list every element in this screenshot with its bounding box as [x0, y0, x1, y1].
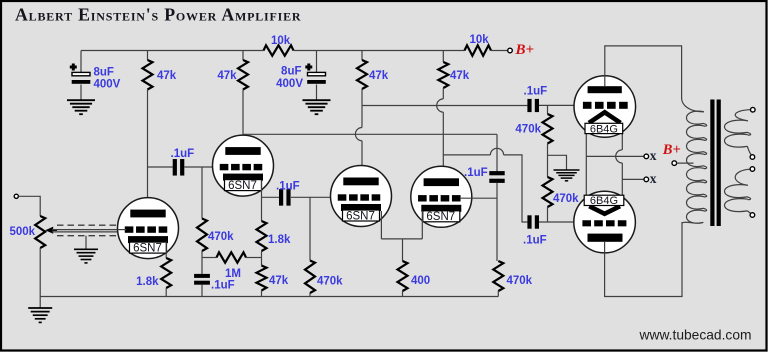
tube V2 6SN7 grid [220, 164, 263, 170]
svg-text:B+: B+ [662, 142, 681, 158]
label .1uF #1 [171, 148, 195, 160]
wire: rail to R 47k #2 [242, 51, 244, 61]
capacitor C .1uF #1 [173, 159, 185, 176]
label 47k #3 [369, 70, 389, 82]
wire: R 47k #4 down [442, 88, 444, 99]
svg-text:470k: 470k [208, 231, 234, 243]
wire: cathode node to R 400 [402, 239, 404, 261]
tube V1 6SN7 grid [125, 226, 168, 232]
B+ terminal top [508, 48, 513, 53]
wire: hop to V4 plate [442, 112, 444, 179]
resistor R 47k V2 cathode [257, 266, 267, 291]
wire: 1M left lead [202, 257, 217, 259]
svg-text:www.tubecad.com: www.tubecad.com [639, 328, 752, 343]
wire hop: V4 plate wire over top grid line [437, 99, 444, 112]
label x top [650, 148, 657, 163]
label 8uF #1 [94, 67, 114, 79]
wire: top filament left lead [585, 123, 587, 206]
tube V1 6SN7 cathode [128, 236, 168, 243]
capacitor C .1uF vertical [489, 171, 504, 183]
wire: C .1uF #3 to V3 grid [291, 196, 331, 198]
svg-text:.1uF: .1uF [211, 280, 235, 292]
wire: C .1uF top to top 6B4G grid [539, 104, 575, 106]
wire: B+ rail left segment [81, 50, 264, 52]
tube V2 6SN7 plate [225, 147, 260, 155]
tube 6B4G bottom label box [584, 195, 624, 207]
svg-text:470k: 470k [507, 275, 533, 287]
label 8uF #2 [281, 66, 301, 78]
svg-text:.1uF: .1uF [524, 86, 548, 98]
svg-text:470k: 470k [317, 276, 343, 288]
tube V2 6SN7 label box [225, 180, 262, 192]
tube 6B4G bottom envelope [574, 191, 636, 253]
label 1.8k V2 [268, 234, 291, 246]
transformer T1 core [710, 100, 721, 227]
wire: B+ tap to primary [677, 162, 694, 164]
wire: V2 cathode to C .1uF #3 [262, 196, 280, 198]
wire: joined cathodes [381, 238, 422, 240]
wire: rail drop to C 8uF #1 [80, 51, 82, 73]
svg-text:8uF: 8uF [94, 67, 114, 79]
svg-text:x: x [650, 171, 657, 186]
wire: V2 grid node down to R 470k #1 [201, 167, 203, 219]
svg-text:470k: 470k [553, 193, 579, 205]
label 47k #1 [157, 70, 177, 82]
svg-text:.1uF: .1uF [276, 181, 300, 193]
secondary terminal 1 [751, 107, 756, 112]
wire: R 47k V2 to bus [261, 291, 263, 297]
svg-text:10k: 10k [271, 35, 291, 47]
svg-text:470k: 470k [515, 124, 541, 136]
wire: mid node to ground jog [548, 155, 567, 169]
wire: bus to main ground [39, 297, 41, 309]
label 470k V4 grid [507, 275, 533, 287]
svg-text:47k: 47k [369, 70, 389, 82]
potentiometer wiper arrow [45, 227, 57, 234]
resistor R 10k right [465, 45, 492, 55]
label 47k #4 [450, 70, 470, 82]
label 47k V2 cathode [269, 275, 289, 287]
tube 6B4G bottom plate [588, 234, 623, 242]
tube V4 6SN7 envelope [411, 166, 472, 227]
wire: V3 grid node to R 470k [309, 197, 311, 260]
wire: V4 grid lead [460, 197, 497, 199]
wire: shield to ground [85, 236, 87, 249]
resistor R 470k top grid leak [543, 114, 553, 144]
title [15, 5, 301, 25]
wire: input to pot top [18, 196, 40, 216]
wire: R 1.8k V1 to bus [165, 288, 167, 297]
capacitor C .1uF top coupling [527, 99, 539, 112]
transformer T1 primary winding [682, 99, 707, 224]
tube 6B4G bottom grid [582, 220, 626, 226]
wire hop: V3 plate wire over V2 plate line [355, 128, 362, 141]
wire: B+ rail middle segment [294, 50, 465, 52]
wire: filament right to x terminal [622, 178, 644, 180]
tube V3 6SN7 plate [343, 178, 378, 186]
label 10k left [271, 35, 291, 47]
label 500k [10, 226, 36, 238]
tube V1 6SN7 envelope [118, 198, 179, 259]
capacitor C .1uF #3 [279, 189, 291, 206]
svg-text:10k: 10k [470, 34, 490, 46]
svg-text:6SN7: 6SN7 [228, 180, 257, 192]
ground under C 8uF #2 [303, 100, 331, 114]
svg-text:400V: 400V [94, 79, 121, 91]
svg-text:Albert Einstein's Power Amplif: Albert Einstein's Power Amplifier [15, 5, 301, 25]
label .1uF bottom [523, 235, 547, 247]
wire: V1 plate node to C .1uF #1 [148, 166, 173, 168]
tube 6B4G top label box [585, 123, 623, 135]
svg-text:400: 400 [411, 275, 430, 287]
capacitor C 8uF #1 [70, 64, 90, 84]
svg-text:47k: 47k [157, 70, 177, 82]
wire: shielded pair conductor top [52, 229, 118, 231]
label 10k right [470, 34, 490, 46]
resistor R 47k #2 [238, 60, 248, 90]
wire: C .1uF #2 to bus [201, 284, 203, 296]
wire hop: filament right lead over x wire [616, 150, 623, 163]
label 470k V2 grid [208, 231, 234, 243]
resistor R 400 [398, 261, 408, 291]
svg-text:400V: 400V [276, 78, 303, 90]
resistor R 10k left [264, 45, 294, 55]
tube 6B4G bottom filament [589, 206, 620, 214]
tube V4 6SN7 plate [424, 178, 459, 186]
svg-text:47k: 47k [269, 275, 289, 287]
tube V1 6SN7 label box [130, 242, 167, 254]
tube V4 6SN7 label box [423, 211, 460, 223]
ground under C 8uF #1 [67, 100, 95, 114]
resistor R 470k V3 grid [305, 261, 315, 294]
label 1.8k V1 [136, 276, 159, 288]
ground for shield [74, 249, 98, 263]
secondary terminal 3 [750, 167, 755, 172]
wire: 1M right lead [246, 257, 262, 259]
svg-text:1M: 1M [225, 268, 241, 280]
resistor R 1M [217, 252, 247, 262]
wire: rail to R 47k #4 [442, 51, 444, 63]
transformer T1 secondary winding 2 [724, 169, 751, 214]
wire: V1 grid lead [118, 229, 127, 231]
tube 6B4G top plate [588, 86, 622, 93]
wire: V4 plate tap to hop [443, 154, 490, 156]
label .1uF #2 [211, 280, 235, 292]
wire: V3 cathode lead [380, 211, 382, 239]
wire: R 470k bottom to bottom grid line [547, 207, 549, 222]
wire: R 47k #3 to node A [361, 89, 363, 128]
wire: R 470k top to mid node [547, 144, 549, 178]
tube V2 6SN7 cathode [223, 174, 263, 181]
tube V2 6SN7 envelope [213, 135, 274, 196]
wire: R 470k V4 to bus [497, 291, 499, 297]
wire: rail drop to C 8uF #2 [316, 51, 318, 73]
label .1uF #3 [276, 181, 300, 193]
resistor R 47k #1 [143, 60, 153, 90]
svg-text:8uF: 8uF [281, 66, 301, 78]
capacitor C 8uF #2 [305, 64, 326, 84]
potentiometer 500k body [35, 216, 45, 248]
svg-text:500k: 500k [10, 226, 36, 238]
resistor R 1.8k V2 cathode [257, 221, 267, 251]
wire: V4 cathode lead [421, 211, 423, 239]
wire: C vertical to V4 grid node [496, 183, 498, 261]
wire: top 6B4G plate lead [605, 46, 682, 99]
resistor R 47k #4 [438, 62, 448, 88]
wire: R 1.8k V2 to R 47k [261, 251, 263, 266]
label x bottom [650, 171, 657, 186]
label 47k #2 [217, 70, 237, 82]
svg-text:47k: 47k [217, 70, 237, 82]
wire: R 400 to bus [402, 291, 404, 297]
label 470k top [515, 124, 541, 136]
tube 6B4G top grid [583, 102, 628, 109]
resistor R 470k bottom grid leak [543, 177, 553, 207]
svg-text:6SN7: 6SN7 [426, 211, 455, 223]
transformer T1 secondary winding 1 [724, 110, 752, 156]
wire: top filament right lead lower [621, 163, 623, 206]
resistor R 47k #3 [357, 60, 367, 89]
label 400 [411, 275, 430, 287]
x terminal top [644, 154, 649, 159]
wire: rail to R 47k #3 [361, 51, 363, 61]
wire: shielded pair conductor bottom [52, 231, 118, 233]
wire: rail to R 47k #1 [147, 51, 149, 61]
wire: bottom 6B4G plate lead [605, 222, 682, 297]
label .1uF vertical [464, 167, 488, 179]
shield dashed top [57, 224, 118, 226]
wire: rail to B+ terminal [491, 50, 508, 52]
watermark www.tubecad.com [639, 328, 752, 343]
wire: R 470k to C .1uF #2 [201, 251, 203, 275]
wire: V3 plate node to C .1uF top [362, 105, 527, 107]
svg-text:47k: 47k [450, 70, 470, 82]
wire hop: V4 plate line over V4 grid feed [490, 148, 503, 155]
x terminal bottom [644, 177, 649, 182]
tube V3 6SN7 grid [338, 194, 381, 200]
B+ terminal center tap [672, 161, 677, 166]
wire: C 8uF #2 to ground [316, 85, 318, 101]
wire: R 47k #2 to V2 plate [242, 90, 244, 149]
input terminal [14, 194, 18, 198]
wire: grid node down to R 470k top [547, 106, 549, 115]
wire: V2 cathode lead [261, 181, 263, 222]
main ground symbol [28, 308, 52, 322]
svg-text:6SN7: 6SN7 [346, 210, 375, 222]
label 470k V3 grid [317, 276, 343, 288]
svg-text:6B4G: 6B4G [590, 123, 618, 135]
tube V4 6SN7 grid [418, 195, 461, 201]
wire: C .1uF #1 to V2 grid [184, 166, 213, 168]
svg-text:B+: B+ [515, 42, 535, 58]
label .1uF top [524, 86, 548, 98]
wire: C 8uF #1 to ground [80, 85, 82, 101]
tube V3 6SN7 envelope [331, 166, 392, 227]
svg-text:.1uF: .1uF [464, 167, 488, 179]
wire: hop to corner [504, 155, 528, 222]
wire: R 470k V3 to bus [309, 293, 311, 297]
wire: V2 plate tap line [243, 133, 497, 135]
secondary terminal 2 [750, 155, 755, 160]
tube V3 6SN7 cathode [341, 204, 381, 211]
svg-text:.1uF: .1uF [523, 235, 547, 247]
tube V1 6SN7 plate [130, 210, 165, 218]
wire: R 47k #1 to V1 plate [147, 90, 149, 211]
wire: node A to V3 plate [361, 141, 363, 179]
svg-text:6B4G: 6B4G [590, 195, 618, 207]
wire: ground bus [40, 296, 498, 298]
resistor R 1.8k V1 cathode [161, 258, 171, 288]
svg-text:1.8k: 1.8k [136, 276, 159, 288]
label B+ top [515, 42, 535, 58]
ground mid grid-leak [554, 170, 580, 181]
secondary terminal 4 [750, 213, 755, 218]
wire: V1 cathode lead [165, 242, 167, 259]
wire: filament left to x terminal [586, 155, 644, 157]
tube 6B4G top envelope [574, 76, 636, 138]
svg-text:6SN7: 6SN7 [133, 243, 162, 255]
svg-text:x: x [650, 148, 657, 163]
tube 6B4G top filament [589, 112, 621, 123]
label 470k bottom [553, 193, 579, 205]
svg-text:.1uF: .1uF [171, 148, 195, 160]
svg-text:1.8k: 1.8k [268, 234, 291, 246]
capacitor C .1uF bottom coupling [527, 215, 539, 228]
shield dashed bottom [57, 235, 118, 237]
wire: V2 plate line corner down [496, 134, 498, 171]
label 400V #2 [276, 78, 303, 90]
tube V3 6SN7 label box [343, 210, 380, 222]
resistor R 470k V4 grid [493, 261, 503, 291]
capacitor C .1uF #2 [194, 274, 210, 285]
wire: top filament right lead upper [621, 123, 623, 150]
label 400V #1 [94, 79, 121, 91]
tube V4 6SN7 cathode [421, 205, 461, 212]
label 1M [225, 268, 241, 280]
wire: C .1uF bottom to bottom 6B4G grid [539, 221, 574, 223]
resistor R 470k V2 grid [197, 219, 207, 252]
label B+ mid [662, 142, 681, 158]
wire: pot bottom to bottom rail [39, 248, 41, 297]
